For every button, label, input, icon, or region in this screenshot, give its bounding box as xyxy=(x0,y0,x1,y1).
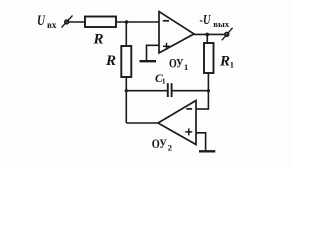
svg-text:вх: вх xyxy=(47,20,57,30)
node D (junction R1 / C1) xyxy=(207,89,210,92)
label OU1 xyxy=(169,55,188,72)
svg-text:1: 1 xyxy=(230,59,234,69)
node B (junction with C1 branch) xyxy=(125,89,128,92)
wire node A down xyxy=(125,22,127,46)
ground (U1 plus input) xyxy=(140,60,157,62)
node A (junction after R) xyxy=(125,20,129,24)
wire bottom rail to U2 output xyxy=(126,122,158,124)
label OU2 xyxy=(152,136,172,153)
op-amp U1 (OU1) xyxy=(159,12,194,54)
label C1 xyxy=(155,73,166,86)
wire node C down to R1 xyxy=(206,34,208,43)
wire into U2 minus input xyxy=(196,108,208,110)
wire plus input of U2 to ground xyxy=(196,133,206,151)
svg-text:1: 1 xyxy=(162,76,166,85)
label U_vx (input voltage) xyxy=(37,13,57,30)
svg-text:R: R xyxy=(93,32,104,48)
svg-text:R: R xyxy=(219,53,230,69)
input terminal xyxy=(62,16,73,28)
wire C1 right plate to right rail xyxy=(172,90,209,92)
capacitor C1 xyxy=(168,83,172,97)
wire R1 down to U2 minus input xyxy=(207,73,209,110)
svg-text:-U: -U xyxy=(200,13,212,28)
output terminal xyxy=(222,28,233,41)
ground (U2 plus input) xyxy=(199,150,215,152)
resistor R1 xyxy=(204,43,214,73)
wire R to op-amp minus input xyxy=(116,21,159,23)
label -U_vyx (output voltage) xyxy=(200,13,230,29)
resistor R (horizontal) xyxy=(85,17,116,28)
svg-text:U: U xyxy=(37,13,46,29)
svg-text:R: R xyxy=(105,53,116,69)
svg-text:2: 2 xyxy=(168,143,172,153)
wire vertical R down to bottom rail xyxy=(125,77,127,123)
wire op-amp output to output terminal xyxy=(194,33,225,35)
resistor R (vertical) xyxy=(121,46,131,77)
wire node B to C1 left plate xyxy=(126,90,167,92)
wire input to R xyxy=(69,21,86,23)
svg-text:ОУ: ОУ xyxy=(152,136,167,151)
label R1 xyxy=(219,53,234,69)
svg-text:ОУ: ОУ xyxy=(169,55,184,70)
svg-text:1: 1 xyxy=(184,62,188,72)
wire plus input of U1 to ground xyxy=(147,45,160,60)
node C (output junction) xyxy=(205,33,209,37)
op-amp U2 (OU2) xyxy=(158,101,196,145)
svg-text:вых: вых xyxy=(213,19,229,29)
